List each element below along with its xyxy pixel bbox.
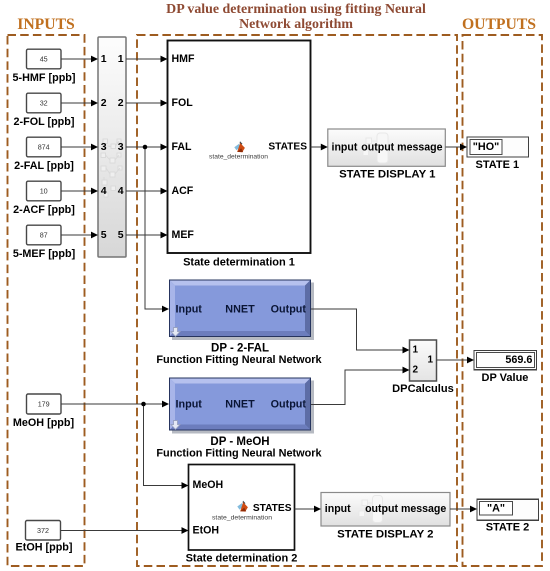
neural network block DP - MeOH <box>169 378 314 434</box>
svg-text:"HO": "HO" <box>473 141 499 153</box>
svg-text:874: 874 <box>38 143 50 152</box>
svg-text:output message: output message <box>361 141 442 153</box>
svg-text:FAL: FAL <box>172 141 193 153</box>
svg-text:DP value determination using f: DP value determination using fitting Neu… <box>166 2 426 17</box>
arrowhead into SD2 MeOH <box>182 482 189 489</box>
svg-text:Input: Input <box>176 303 203 315</box>
svg-text:MeOH: MeOH <box>193 479 224 491</box>
wire 32 -> mux port 2 <box>61 102 92 104</box>
svg-text:179: 179 <box>38 400 50 409</box>
svg-text:ACF: ACF <box>172 185 194 197</box>
neural network block DP - 2-FAL <box>169 280 314 341</box>
svg-text:Output: Output <box>271 399 307 411</box>
central algorithm dashed annotation box <box>137 35 457 566</box>
svg-text:HMF: HMF <box>172 53 195 65</box>
svg-text:DP - MeOH: DP - MeOH <box>210 436 269 448</box>
wire mux2 -> FOL <box>126 102 161 104</box>
wire mux5 -> MEF <box>126 234 161 236</box>
wire 179 -> NNET2 Input <box>61 403 163 405</box>
arrowhead into STATE DISPLAY 2 <box>314 506 321 513</box>
arrowhead into STATE 1 <box>460 144 467 151</box>
svg-text:EtOH: EtOH <box>193 525 219 537</box>
wire NNET2 Output -> DPCalculus in2 <box>311 370 403 405</box>
wire STATE DISPLAY 2 -> STATE 2 <box>450 508 471 510</box>
MATLAB membrane icon <box>234 141 245 152</box>
arrowhead into STATE DISPLAY 1 <box>321 144 328 151</box>
wire SD2 STATES -> STATE DISPLAY 2 <box>295 508 315 510</box>
svg-text:1: 1 <box>118 53 124 65</box>
arrowhead into DPCalculus 2 <box>403 367 410 374</box>
svg-text:STATES: STATES <box>253 503 292 514</box>
display STATE 1 ("HO") <box>467 137 529 157</box>
svg-text:STATE DISPLAY 2: STATE DISPLAY 2 <box>337 528 433 540</box>
svg-text:output message: output message <box>365 503 446 515</box>
svg-text:EtOH [ppb]: EtOH [ppb] <box>16 542 73 554</box>
svg-text:STATES: STATES <box>268 142 307 153</box>
svg-text:Function Fitting Neural Networ: Function Fitting Neural Network <box>156 448 322 460</box>
svg-text:5-MEF [ppb]: 5-MEF [ppb] <box>13 248 75 260</box>
sum block DPCalculus <box>410 340 437 381</box>
wire 45 -> mux port 1 <box>61 58 92 60</box>
arrowhead into SD2 EtOH <box>182 527 189 534</box>
arrowhead into DPCalculus 1 <box>403 347 410 354</box>
wire MeOH branch down to SD2 MeOH <box>144 404 183 486</box>
wire 87 -> mux port 5 <box>61 234 92 236</box>
subsystem STATE DISPLAY 2 <box>321 493 450 527</box>
wire mux3 -> FAL <box>126 146 161 148</box>
svg-text:2-FAL [ppb]: 2-FAL [ppb] <box>14 160 74 172</box>
svg-text:5-HMF [ppb]: 5-HMF [ppb] <box>13 72 76 84</box>
constant block 45 (5-HMF) <box>27 49 62 69</box>
subsystem STATE DISPLAY 1 <box>328 129 446 166</box>
svg-text:STATE 2: STATE 2 <box>486 522 530 534</box>
MATLAB membrane icon <box>237 501 248 512</box>
arrowheads into SD1 <box>161 56 168 63</box>
display DP Value (569.6) <box>474 351 537 370</box>
mux port numbers <box>101 53 124 241</box>
svg-text:OUTPUTS: OUTPUTS <box>462 16 536 33</box>
svg-text:MeOH [ppb]: MeOH [ppb] <box>13 417 74 429</box>
svg-text:INPUTS: INPUTS <box>17 16 75 33</box>
svg-text:Input: Input <box>176 399 203 411</box>
svg-text:2: 2 <box>413 365 419 376</box>
wire 372 -> SD2 EtOH <box>61 530 183 532</box>
wire SD1 STATES -> STATE DISPLAY 1 <box>311 146 322 148</box>
constant block 10 (2-ACF) <box>27 181 62 201</box>
MATLAB Function block: State determination 1 <box>168 41 311 254</box>
wire FAL branch down to NNET1 Input <box>145 147 163 309</box>
INPUTS dashed annotation box <box>8 35 85 566</box>
svg-text:NNET: NNET <box>225 399 255 411</box>
svg-text:4: 4 <box>118 185 124 197</box>
MATLAB Function block: State determination 2 <box>189 465 295 551</box>
constant block 372 (EtOH) <box>26 521 61 541</box>
svg-text:2-FOL [ppb]: 2-FOL [ppb] <box>14 116 75 128</box>
svg-text:STATE 1: STATE 1 <box>475 159 519 171</box>
mux/router subsystem block (5 in, 5 out) <box>98 37 126 257</box>
svg-text:State determination 2: State determination 2 <box>186 552 298 564</box>
svg-text:STATE DISPLAY 1: STATE DISPLAY 1 <box>339 168 436 180</box>
arrowheads into mux <box>91 56 98 63</box>
svg-text:3: 3 <box>101 141 107 153</box>
junction dot FAL <box>143 145 148 150</box>
constant block 87 (5-MEF) <box>27 225 62 245</box>
svg-text:569.6: 569.6 <box>505 354 532 366</box>
faint watermark <box>363 133 388 163</box>
svg-text:4: 4 <box>101 185 107 197</box>
arrowhead into DP Value <box>467 357 474 364</box>
svg-text:3: 3 <box>118 141 124 153</box>
svg-text:Function Fitting Neural Networ: Function Fitting Neural Network <box>156 354 322 366</box>
svg-text:372: 372 <box>37 526 49 535</box>
svg-text:5: 5 <box>118 229 124 241</box>
faint routing watermark <box>101 139 122 197</box>
svg-text:"A": "A" <box>487 503 505 515</box>
title: DP value determination using fitting Neural Network algorithm <box>166 2 426 32</box>
svg-text:Network algorithm: Network algorithm <box>239 17 353 32</box>
svg-text:input: input <box>325 503 351 515</box>
svg-text:State determination 1: State determination 1 <box>183 256 295 268</box>
svg-text:2: 2 <box>101 97 107 109</box>
svg-text:1: 1 <box>413 345 419 356</box>
svg-text:DP Value: DP Value <box>482 372 529 384</box>
svg-text:2-ACF [ppb]: 2-ACF [ppb] <box>13 204 75 216</box>
OUTPUTS dashed annotation box <box>463 35 543 566</box>
wire mux1 -> HMF <box>126 58 161 60</box>
junction dot MeOH <box>141 402 146 407</box>
svg-text:DP - 2-FAL: DP - 2-FAL <box>211 343 269 355</box>
svg-text:state_determination: state_determination <box>209 153 268 160</box>
svg-text:32: 32 <box>40 99 48 108</box>
svg-text:10: 10 <box>40 187 48 196</box>
svg-text:1: 1 <box>101 53 107 65</box>
svg-text:FOL: FOL <box>172 97 194 109</box>
svg-text:2: 2 <box>118 97 124 109</box>
arrowhead into STATE 2 <box>470 506 477 513</box>
svg-text:NNET: NNET <box>225 303 255 315</box>
arrowhead into NNET2 Input <box>162 401 169 408</box>
constant block 874 (2-FAL) <box>27 137 62 157</box>
svg-text:DPCalculus: DPCalculus <box>392 383 454 395</box>
svg-text:1: 1 <box>427 355 433 366</box>
wire 10 -> mux port 4 <box>61 190 92 192</box>
arrowhead into NNET1 Input <box>162 306 169 313</box>
wire mux4 -> ACF <box>126 190 161 192</box>
constant block 179 (MeOH) <box>27 394 62 414</box>
svg-text:state_determination: state_determination <box>212 514 272 521</box>
wire DPCalculus out -> DP Value <box>437 359 468 361</box>
wire 874 -> mux port 3 <box>61 146 92 148</box>
svg-text:Output: Output <box>271 303 307 315</box>
library badge arrow <box>171 421 180 430</box>
svg-text:MEF: MEF <box>172 229 195 241</box>
wire STATE DISPLAY 1 -> STATE 1 <box>446 146 461 148</box>
display STATE 2 ("A") <box>477 499 539 520</box>
faint watermark <box>359 496 383 523</box>
wire NNET1 Output -> DPCalculus in1 <box>311 309 403 350</box>
svg-text:5: 5 <box>101 229 107 241</box>
svg-text:87: 87 <box>40 231 48 240</box>
svg-text:input: input <box>332 141 358 153</box>
library badge arrow <box>171 328 180 337</box>
svg-text:45: 45 <box>40 55 48 64</box>
constant block 32 (2-FOL) <box>27 93 62 113</box>
